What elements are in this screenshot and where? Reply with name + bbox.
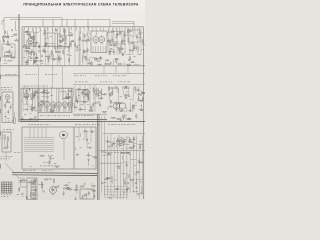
wire	[123, 118, 125, 120]
value label	[47, 96, 49, 99]
resistor R134	[79, 186, 85, 187]
wire	[86, 194, 88, 199]
wire	[86, 132, 88, 140]
wire	[68, 88, 70, 111]
wire	[26, 87, 28, 105]
wire	[79, 85, 81, 112]
wire	[38, 30, 41, 32]
wire	[88, 27, 90, 35]
wire	[104, 116, 106, 196]
resistor R72	[88, 96, 89, 100]
chassis rail	[0, 65, 145, 67]
wire	[111, 195, 116, 197]
value label	[44, 45, 47, 48]
shield box S5	[112, 32, 124, 45]
coil L27	[87, 95, 89, 97]
value label	[43, 29, 45, 32]
wire	[45, 127, 47, 138]
vacuum tube V2	[93, 35, 99, 45]
capacitor C2	[7, 34, 9, 39]
value label	[123, 191, 125, 194]
wire	[92, 155, 95, 157]
resistor R114	[129, 137, 130, 143]
wire	[4, 60, 11, 62]
capacitor C9	[67, 34, 72, 36]
wire	[28, 46, 30, 49]
coil L56	[137, 193, 139, 195]
resistor R106	[136, 114, 137, 119]
vacuum tube V11	[95, 88, 100, 97]
wire	[34, 110, 37, 112]
resistor R51	[117, 63, 123, 64]
capacitor C45	[29, 57, 34, 59]
value label	[54, 162, 56, 165]
wire	[58, 88, 61, 104]
value label	[79, 49, 81, 52]
wire	[27, 27, 29, 34]
resistor R49	[91, 61, 92, 65]
value label	[71, 33, 73, 36]
value label	[123, 179, 125, 182]
capacitor C100	[126, 162, 128, 167]
wire	[122, 87, 124, 97]
value label	[68, 97, 70, 100]
node RF-block top edge	[22, 26, 144, 28]
wire	[84, 85, 86, 112]
capacitor C20	[76, 45, 78, 50]
value label	[66, 188, 68, 191]
wire	[60, 91, 68, 93]
capacitor C73	[126, 118, 131, 120]
coil L49	[34, 179, 36, 181]
background paper	[0, 0, 145, 200]
wire	[132, 179, 134, 186]
capacitor C93	[32, 194, 37, 196]
resistor R109	[133, 136, 134, 142]
wire	[24, 149, 54, 151]
wire	[97, 60, 100, 62]
resistor R130	[67, 189, 73, 190]
wire	[115, 27, 118, 31]
value label	[83, 96, 85, 99]
resistor R60	[65, 36, 66, 42]
wire	[116, 137, 118, 199]
tube socket V9	[60, 131, 68, 139]
wire	[46, 33, 48, 38]
wire	[71, 41, 73, 46]
wire	[39, 66, 63, 88]
coil L7	[23, 46, 25, 48]
wire	[46, 107, 48, 112]
value label	[133, 190, 135, 193]
value label	[129, 95, 131, 98]
value label	[142, 48, 144, 51]
value label	[111, 180, 113, 183]
resistor R81	[142, 96, 143, 100]
resistor R37	[84, 33, 85, 39]
wire	[133, 143, 137, 145]
resistor R61	[4, 135, 5, 146]
wire	[65, 92, 67, 95]
wire	[128, 30, 132, 32]
value label	[135, 91, 137, 94]
wire	[140, 28, 142, 55]
wire	[116, 28, 118, 55]
value label	[11, 103, 13, 106]
wire	[27, 88, 29, 111]
label row	[22, 85, 48, 88]
wire	[139, 151, 141, 199]
resistor R83	[110, 92, 111, 98]
resistor R6	[5, 56, 11, 57]
wire	[37, 127, 39, 138]
wire	[141, 90, 144, 92]
resistor R82	[112, 90, 113, 96]
wire	[131, 105, 133, 112]
capacitor C37	[108, 39, 110, 44]
resistor R2	[5, 52, 11, 53]
wire	[124, 114, 126, 118]
capacitor C69	[82, 101, 87, 103]
value label	[76, 50, 78, 53]
value label	[17, 193, 20, 196]
wire	[83, 89, 85, 105]
wire	[113, 137, 115, 193]
capacitor C91	[63, 191, 65, 196]
wire	[24, 141, 54, 143]
wire	[28, 55, 31, 57]
shield box S1	[2, 44, 15, 57]
resistor R1	[9, 49, 10, 55]
wire	[134, 27, 136, 37]
wire	[32, 27, 34, 66]
resistor R99	[102, 111, 108, 112]
value label	[76, 135, 78, 138]
wire	[70, 107, 72, 112]
vacuum tube V9	[68, 100, 73, 109]
wire	[111, 176, 113, 184]
vacuum tube V14	[5, 95, 10, 100]
wire	[33, 127, 35, 138]
value label	[126, 34, 129, 37]
wire	[72, 87, 74, 104]
value label	[68, 181, 70, 184]
resistor R115	[83, 131, 89, 132]
coil L25	[25, 90, 26, 91]
wire	[52, 19, 54, 26]
wire	[68, 47, 70, 52]
value label	[3, 40, 5, 43]
label row	[23, 169, 54, 172]
vacuum tube V8	[63, 100, 68, 109]
coil L2	[11, 46, 12, 47]
value label	[22, 195, 23, 198]
wire	[93, 87, 94, 99]
wire	[122, 156, 124, 160]
wire	[2, 47, 4, 50]
value label	[50, 35, 52, 38]
wire	[58, 55, 60, 61]
value label	[4, 59, 6, 62]
coil L1	[11, 29, 13, 31]
coil L35	[33, 108, 35, 110]
value label	[130, 30, 132, 33]
resistor R137	[64, 185, 70, 186]
wire	[113, 28, 115, 55]
wire	[92, 46, 94, 52]
label row	[104, 191, 128, 194]
capacitor C7	[58, 36, 63, 38]
wire	[51, 27, 54, 32]
value label	[86, 41, 88, 44]
value label	[81, 104, 83, 107]
value label	[30, 59, 32, 62]
coil L29	[127, 95, 128, 96]
wire	[33, 59, 35, 64]
resistor R141	[107, 154, 113, 155]
wire	[32, 88, 34, 111]
wire	[80, 133, 82, 137]
coil L33	[26, 109, 27, 110]
value label	[141, 91, 143, 94]
capacitor C13	[59, 38, 61, 43]
wire	[28, 27, 30, 66]
wire	[83, 27, 85, 31]
shield box S7	[76, 90, 88, 102]
value label	[37, 96, 39, 99]
coil L21	[139, 33, 141, 35]
shield box S3	[45, 33, 55, 46]
wire	[113, 60, 115, 66]
wire	[138, 27, 141, 34]
capacitor C102	[101, 182, 104, 184]
value label	[113, 142, 114, 145]
capacitor C39	[98, 57, 103, 59]
wire	[82, 31, 84, 66]
wire	[30, 117, 37, 119]
capacitor C92	[91, 185, 96, 187]
wire	[23, 92, 29, 94]
tube row box U3	[38, 88, 72, 112]
coil L17	[129, 50, 131, 52]
wire	[35, 27, 37, 36]
wire	[88, 160, 90, 166]
wire	[98, 88, 100, 99]
wire	[42, 95, 50, 97]
capacitor C95	[27, 181, 32, 183]
vacuum tube V4	[39, 100, 44, 109]
capacitor C50	[29, 89, 31, 92]
wire	[15, 21, 17, 30]
wire	[19, 181, 27, 183]
wire	[141, 110, 143, 112]
wire	[58, 107, 60, 112]
coil L13	[55, 51, 57, 53]
connector X3	[27, 178, 37, 200]
wire	[105, 46, 107, 52]
wire	[136, 178, 143, 180]
resistor R40	[119, 48, 125, 49]
value label	[50, 94, 53, 97]
capacitor C65	[10, 105, 12, 110]
label row	[14, 151, 21, 154]
value label	[139, 161, 141, 164]
value label	[66, 97, 68, 100]
wire corner	[2, 21, 5, 26]
wire	[94, 60, 101, 62]
wire	[66, 19, 68, 26]
capacitor C58	[31, 107, 33, 112]
resistor R64	[43, 89, 44, 94]
coil L58	[129, 154, 130, 155]
bus rail	[20, 120, 145, 122]
resistor R123	[30, 182, 36, 183]
resistor R94	[139, 100, 143, 101]
wire	[22, 86, 24, 103]
label row	[28, 123, 136, 126]
capacitor C53	[83, 94, 88, 96]
resistor R9	[11, 53, 12, 59]
capacitor C60	[31, 107, 36, 109]
wire	[108, 32, 114, 34]
resistor R19	[39, 44, 40, 50]
wire	[44, 27, 46, 66]
value label	[55, 51, 57, 54]
capacitor C97	[139, 192, 143, 194]
vacuum tube V6	[51, 100, 56, 109]
resistor R45	[142, 39, 143, 45]
resistor R80	[76, 89, 82, 90]
resistor R8	[14, 40, 18, 41]
capacitor C16	[69, 41, 71, 46]
resistor R5	[12, 34, 17, 35]
resistor R44	[119, 49, 120, 55]
wire	[130, 159, 136, 161]
value label	[124, 43, 126, 46]
capacitor C86	[82, 195, 84, 199]
resistor R39	[79, 36, 80, 42]
wire	[86, 154, 92, 156]
capacitor C41	[105, 62, 107, 65]
capacitor C30	[136, 34, 138, 39]
wire	[87, 36, 89, 42]
capacitor C44	[52, 58, 57, 60]
resistor R69	[66, 97, 72, 98]
wire	[112, 21, 134, 23]
wire	[139, 140, 143, 142]
resistor R120	[21, 180, 27, 181]
wire	[78, 109, 82, 111]
wire	[124, 27, 126, 35]
capacitor C47	[33, 90, 38, 92]
resistor R13	[25, 48, 31, 49]
wire	[116, 86, 118, 92]
resistor R10	[3, 35, 4, 41]
coil L14	[84, 56, 86, 58]
value label	[78, 39, 79, 42]
resistor R125	[19, 187, 20, 193]
resistor R32	[63, 49, 64, 55]
capacitor C81	[87, 147, 92, 149]
wire	[43, 162, 50, 164]
value label	[83, 49, 85, 52]
capacitor C15	[42, 51, 47, 53]
wire	[42, 19, 44, 26]
wire	[119, 44, 121, 51]
wire	[23, 57, 27, 59]
value label	[143, 44, 145, 47]
wire	[116, 103, 118, 108]
resistor R124	[76, 184, 77, 190]
label row	[104, 188, 128, 191]
wire	[48, 59, 50, 62]
value label	[92, 131, 93, 134]
resistor R140	[125, 152, 131, 153]
value label	[41, 62, 43, 65]
wire	[52, 27, 54, 66]
potentiometer R38	[12, 112, 16, 123]
wire	[132, 28, 134, 55]
wire	[61, 89, 64, 100]
wire	[115, 111, 117, 113]
wire	[126, 137, 128, 199]
capacitor C64	[7, 109, 9, 114]
wire	[24, 147, 54, 149]
bus rail	[12, 173, 97, 176]
resistor R146	[125, 180, 126, 186]
wire	[0, 40, 2, 140]
vacuum tube V10	[85, 88, 90, 97]
value label	[78, 94, 80, 97]
wire	[79, 27, 82, 34]
wire	[42, 86, 45, 98]
resistor R16	[25, 44, 26, 50]
wire	[33, 180, 35, 186]
wire	[79, 97, 81, 99]
coil L47	[34, 181, 36, 183]
wire	[123, 139, 125, 199]
value label	[107, 107, 108, 110]
focus unit box	[2, 132, 11, 152]
value label	[41, 183, 44, 186]
value label	[136, 190, 138, 193]
resistor R48	[106, 63, 112, 64]
value label	[126, 114, 127, 117]
capacitor C43	[39, 60, 44, 62]
label row	[75, 81, 130, 84]
capacitor C54	[123, 86, 128, 88]
wire	[42, 93, 48, 95]
wire	[46, 87, 48, 101]
wire	[121, 28, 123, 55]
resistor R62	[7, 137, 8, 148]
capacitor C96	[125, 188, 130, 190]
value label	[121, 46, 123, 49]
wire	[43, 100, 50, 102]
wire right border	[143, 27, 145, 199]
wire	[23, 108, 31, 110]
value label	[142, 92, 144, 95]
value label	[30, 165, 32, 168]
capacitor C61	[50, 110, 55, 112]
resistor R31	[51, 50, 52, 56]
wire	[116, 143, 118, 148]
resistor R34	[81, 40, 87, 41]
wire	[137, 100, 142, 102]
capacitor C33	[116, 31, 118, 36]
value label	[114, 142, 115, 145]
wire	[102, 154, 108, 156]
